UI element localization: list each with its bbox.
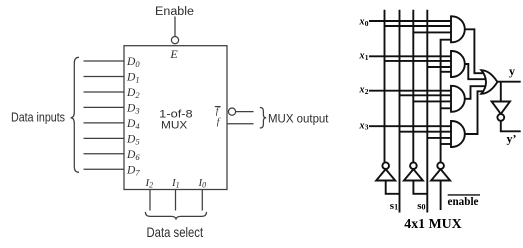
OR gate G5 [481,70,497,94]
wire tap s1' to gate1 [385,25,452,27]
svg-text:MUX output: MUX output [268,113,329,125]
wire I0 [201,190,203,211]
overbar of f-bar label [215,106,221,108]
inverter U-Y triangle [492,102,510,114]
inverter U1 triangle (s1) [376,169,395,180]
wire G2 output to OR [465,64,486,79]
wire x2 [369,90,452,92]
wire D4 [84,122,125,124]
wire s0 to inverter U2 [413,181,427,194]
bubble on f-bar output [228,108,235,115]
wire x1 [369,55,452,57]
AND gate G2 [451,51,465,77]
wire D3 [84,106,125,108]
wire tap s1 to gate3 [400,94,452,96]
svg-text:x: x [359,85,365,96]
wire tap s0' to gate3 [413,100,451,102]
bubble on E input [171,37,178,44]
wire G4 output to OR [465,91,485,134]
wire D6 [84,153,125,155]
wire x0 [369,20,452,22]
svg-text:s1: s1 [390,200,398,212]
svg-text:2: 2 [365,87,369,96]
wire y' output [501,121,521,132]
wire G3 output to OR [465,86,486,99]
svg-text:4x1 MUX: 4x1 MUX [404,217,461,232]
brace data select [145,212,206,220]
wire f [227,123,254,125]
wire tap enable to gate4 [441,143,452,145]
bubble on inverter U1 [382,162,389,169]
block U1 (1-of-8 MUX) [124,46,227,190]
wire y output [497,81,520,83]
brace MUX output [260,108,266,129]
wire s1 to inverter U1 [386,181,400,194]
wire I2 [149,190,151,211]
svg-text:1: 1 [365,53,369,62]
wire s0' vertical [412,10,414,163]
wire D7 [84,168,125,170]
svg-text:3: 3 [365,123,369,132]
wire f-bar [236,111,254,113]
svg-text:y’: y’ [507,131,517,145]
wire s1 vertical [399,10,401,213]
svg-text:x: x [359,50,365,61]
svg-text:s0: s0 [417,200,425,212]
wire I1 [175,190,177,211]
AND gate G1 [451,16,465,42]
wire tap s1' to gate2 [385,60,452,62]
svg-text:x: x [359,16,365,27]
wire D5 [84,137,125,139]
wire tap s0' to gate1 [413,31,451,33]
bubble on inverter U2 [410,162,417,169]
wire tap s0 to gate2 [427,66,451,68]
svg-text:y: y [509,64,515,78]
brace data inputs [71,57,79,172]
wire tap s1 to gate4 [400,131,452,133]
inverter U3 triangle (enable) [431,169,450,180]
svg-text:enable: enable [448,194,480,208]
wire enable input [440,181,442,211]
AND gate G3 [451,86,465,112]
wire tap enable to gate2 [441,71,452,73]
wire D1 [84,76,125,78]
wire tap s0 to gate4 [427,137,451,139]
wire G1 output to OR [465,29,485,73]
wire tap enable to gate3 [441,107,452,109]
svg-text:Enable: Enable [155,6,194,18]
svg-text:Data inputs: Data inputs [11,110,65,124]
wire enable vertical [441,40,452,163]
inverter U2 triangle (s0) [404,169,423,180]
wire x3 [369,125,452,127]
wire D2 [84,91,125,93]
AND gate G4 [451,121,465,147]
overbar of enable [448,194,480,195]
wire s1' vertical [384,10,386,163]
svg-text:x: x [359,120,365,131]
svg-text:Data select: Data select [147,224,204,240]
wire D0 [84,60,125,62]
bubble on inverter U-Y [497,114,504,121]
bubble on inverter U3 [437,162,444,169]
svg-text:MUX: MUX [161,120,188,132]
wire to inverter Y [500,82,502,102]
wire Enable [174,17,176,37]
svg-text:E: E [169,47,178,61]
svg-text:0: 0 [365,19,369,28]
wire s0 vertical [426,10,428,213]
